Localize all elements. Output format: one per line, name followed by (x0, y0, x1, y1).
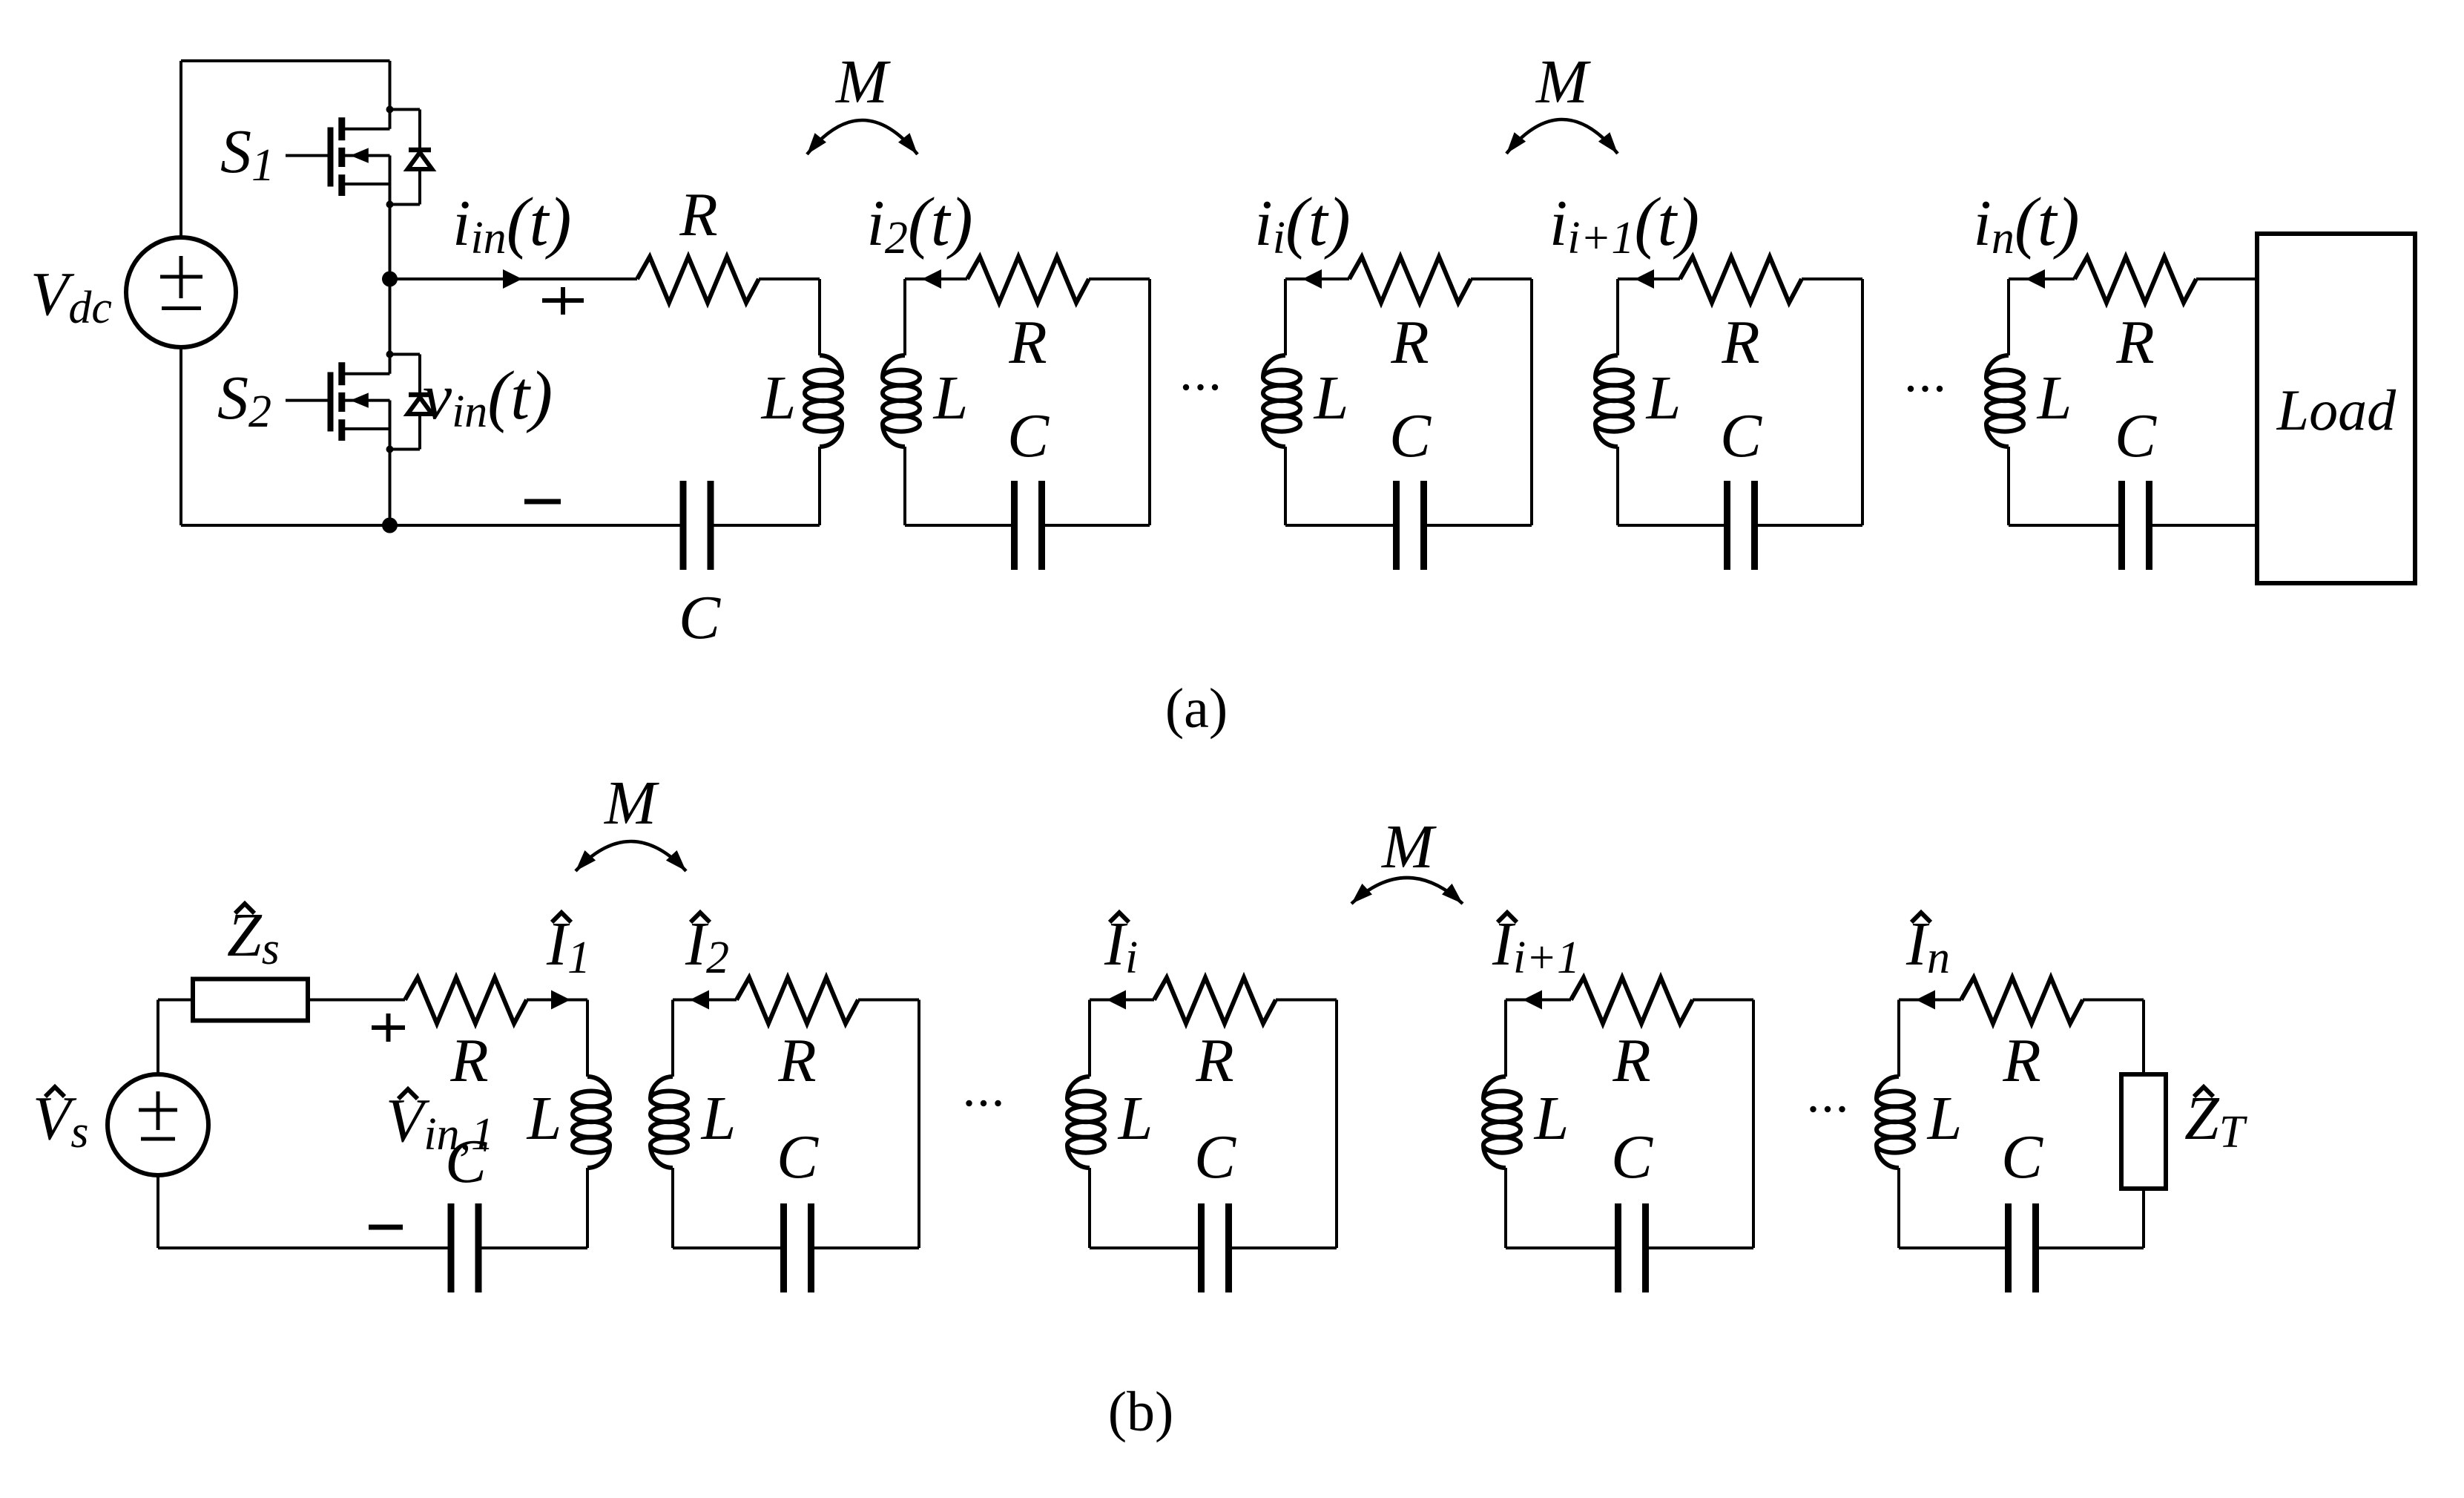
wire diode top branch S2 (390, 353, 421, 356)
wire b top left (158, 999, 193, 1002)
svg-text:M: M (604, 769, 659, 838)
svg-text:Load: Load (2276, 378, 2397, 442)
svg-text:L: L (1534, 1084, 1569, 1153)
label L loop1 (761, 364, 797, 433)
svg-text:L: L (1314, 364, 1349, 433)
caption (a) (1165, 677, 1228, 740)
svg-text:R: R (1008, 308, 1047, 377)
body diode of S1 (408, 110, 432, 205)
label Vdc (30, 260, 112, 333)
capacitor C loopi (1397, 481, 1424, 570)
label C loop2 (b) (777, 1123, 819, 1192)
transistor S2 gate bar (328, 372, 334, 432)
resistor R loopi+1 (1680, 257, 1802, 303)
label M coupling 2 (b) (1381, 812, 1437, 881)
resistor R loopi (1349, 257, 1471, 303)
resistor R loop2 (b) (737, 978, 858, 1024)
label in(t) (1973, 184, 2079, 263)
svg-text:L: L (761, 364, 797, 433)
label Vs with hat (33, 1084, 88, 1157)
wire b loopn top with arrow (1899, 991, 1961, 1010)
node S1 drain-diode junction (386, 106, 394, 114)
wire loopi top with current arrow (1285, 269, 1349, 289)
wire b loop1 bottom left (158, 1246, 451, 1249)
wire loop2 left lower (903, 447, 906, 525)
label R loopi (1390, 308, 1429, 377)
wire loop2 bottom left (905, 524, 1015, 527)
inductor L loop1 (b) (573, 1077, 610, 1168)
wire b loopi right vertical (1335, 1000, 1338, 1249)
resistor R loop1 (b) (405, 978, 527, 1024)
transistor S2 drain lead (342, 372, 390, 375)
inductor L loopi (b) (1067, 1077, 1104, 1168)
node bottom rail junction (382, 518, 398, 533)
transistor S2 gate lead (286, 399, 328, 402)
resistor R loop2 (967, 257, 1089, 303)
svg-text:C: C (1389, 401, 1432, 470)
capacitor C loopn (b) (2009, 1203, 2036, 1292)
wire b loopi left lower (1088, 1168, 1091, 1248)
label ii+1(t) (1549, 184, 1699, 263)
inductor L loopn (b) (1877, 1077, 1914, 1168)
mutual coupling arrow 1 (a) (807, 120, 918, 154)
wire loopi+1 top with current arrow (1618, 269, 1680, 289)
label C loop1 (b) (445, 1127, 487, 1196)
svg-text:L: L (1927, 1084, 1963, 1153)
wire loop2 right vertical (1148, 279, 1151, 525)
wire b loopi+1 bottom right (1646, 1246, 1754, 1249)
label R loopi+1 (b) (1612, 1026, 1650, 1095)
wire loop2 bottom right (1042, 524, 1150, 527)
wire loopi+1 bottom left (1618, 524, 1727, 527)
wire loopn left upper (2007, 279, 2010, 355)
capacitor C loop1 (b) (451, 1203, 478, 1292)
svg-text:L: L (701, 1084, 737, 1153)
wire b loopn left lower (1897, 1168, 1900, 1248)
label R loopi+1 (1721, 308, 1759, 377)
svg-text:(a): (a) (1165, 677, 1228, 740)
label Load (2276, 378, 2397, 442)
wire b loopi+1 top right (1693, 999, 1753, 1002)
transistor S1 gate lead (286, 154, 328, 157)
capacitor C loop2 (1015, 481, 1042, 570)
transistor S1 source lead (342, 183, 390, 185)
wire b loop1 right upper (586, 1000, 589, 1077)
wire loopi left lower (1284, 447, 1287, 525)
capacitor C loopi+1 (b) (1618, 1203, 1646, 1292)
label In with hat (1905, 910, 1950, 983)
wire loopi+1 right vertical (1861, 279, 1864, 525)
label R loopn (2115, 308, 2154, 377)
impedance ZT box (2121, 1074, 2166, 1189)
label vin(t) (423, 358, 553, 437)
wire b loop1 right lower (586, 1168, 589, 1248)
label minus Vin1 (369, 1225, 403, 1230)
ellipsis dots (b) 2 (1810, 1106, 1845, 1112)
svg-text:C: C (1611, 1123, 1653, 1192)
wire loop1 right lower (818, 447, 821, 525)
resistor R loop1 (637, 257, 759, 303)
wire loopi+1 top right (1802, 277, 1862, 280)
wire bridge vertical drain S1 (389, 61, 392, 129)
ellipsis dots (a) 1 (1183, 384, 1218, 390)
wire loopi+1 left upper (1616, 279, 1619, 355)
label Vin1 with hat (386, 1086, 494, 1160)
capacitor C loopi+1 (1727, 481, 1755, 570)
inductor L loopi (1263, 355, 1300, 447)
transistor S1 body lead with arrow (342, 148, 390, 162)
label L loop1 (b) (527, 1084, 562, 1153)
wire b loop2 left lower (671, 1168, 674, 1248)
wire b loop2 bottom right (811, 1246, 920, 1249)
label S1 (220, 117, 274, 191)
svg-text:C: C (1194, 1123, 1236, 1192)
body diode of S2 (408, 355, 432, 450)
label ZT with hat (2184, 1084, 2248, 1157)
label L loopn (2037, 364, 2072, 433)
wire b loopi+1 bottom left (1506, 1246, 1618, 1249)
svg-text:C: C (1720, 401, 1762, 470)
wire b loopi bottom left (1090, 1246, 1202, 1249)
wire loopi top right (1471, 277, 1532, 280)
resistor R loopi (b) (1154, 978, 1276, 1024)
wire b loopn right upper (2142, 1000, 2145, 1075)
wire loopi left upper (1284, 279, 1287, 355)
wire b loop2 top right (858, 999, 919, 1002)
wire loopi bottom left (1285, 524, 1397, 527)
wire b loopi top with arrow (1090, 991, 1154, 1010)
wire b loop2 top with arrow (673, 991, 737, 1010)
resistor R loopi+1 (b) (1571, 978, 1693, 1024)
wire loop1 bottom right (711, 524, 820, 527)
svg-text:i2(t): i2(t) (866, 184, 972, 263)
wire loop1 top right (759, 277, 820, 280)
label R loopn (b) (2002, 1026, 2040, 1095)
label L loop2 (933, 364, 969, 433)
label plus vin (542, 287, 584, 315)
label minus vin (524, 499, 561, 505)
wire b loop2 bottom left (673, 1246, 784, 1249)
wire loopi+1 left lower (1616, 447, 1619, 525)
label Zs with hat (227, 901, 280, 974)
svg-text:C: C (1007, 401, 1050, 470)
capacitor C loopn (2122, 481, 2150, 570)
wire loop2 top right (1089, 277, 1150, 280)
inductor L loopi+1 (b) (1483, 1077, 1521, 1168)
svg-text:L: L (933, 364, 969, 433)
wire diode bottom branch S2 (390, 448, 421, 451)
label plus Vin1 (372, 1014, 405, 1042)
svg-text:L: L (527, 1084, 562, 1153)
inductor L loop2 (883, 355, 920, 447)
label L loopi+1 (b) (1534, 1084, 1569, 1153)
label C loopi+1 (1720, 401, 1762, 470)
voltage source Vdc circle (126, 237, 236, 347)
wire dc left vertical lower (179, 346, 182, 525)
ellipsis dots (a) 2 (1908, 386, 1943, 392)
svg-text:R: R (1195, 1026, 1233, 1095)
label R loop1 (679, 180, 717, 249)
label L loopn (b) (1927, 1084, 1963, 1153)
label R loop1 (b) (449, 1026, 488, 1095)
svg-text:C: C (679, 583, 721, 652)
label Ii+1 with hat (1492, 910, 1580, 983)
label C loop2 (1007, 401, 1050, 470)
inductor L loop2 (b) (650, 1077, 688, 1168)
wire b loopn bottom left (1899, 1246, 2009, 1249)
wire loopn left lower (2007, 447, 2010, 525)
label M coupling 1 (a) (835, 47, 891, 116)
caption (b) (1108, 1381, 1174, 1443)
wire b loop1 top right with arrow (527, 991, 587, 1010)
label C loop1 (679, 583, 721, 652)
resistor R loopn (2075, 257, 2196, 303)
label M coupling 2 (a) (1535, 47, 1591, 116)
transistor S2 body lead with arrow (342, 392, 390, 407)
label I1 with hat (546, 910, 590, 983)
wire loopn bottom right (2150, 524, 2258, 527)
wire loop1 right upper (818, 279, 821, 355)
wire loop2 left upper (903, 279, 906, 355)
wire Vs bottom (157, 1174, 159, 1248)
svg-text:R: R (679, 180, 717, 249)
label C loopi (b) (1194, 1123, 1236, 1192)
wire loop1 top with current arrow (390, 269, 638, 289)
wire b loopn right lower (2142, 1189, 2145, 1248)
label Ii with hat (1104, 910, 1138, 983)
transistor S1 channel (338, 117, 345, 196)
wire bridge vertical source S2 (389, 401, 392, 525)
svg-text:ii(t): ii(t) (1254, 184, 1350, 263)
svg-text:R: R (2115, 308, 2154, 377)
wire loopn top with current arrow (2009, 269, 2075, 289)
wire bridge vertical middle (389, 156, 392, 374)
svg-text:R: R (1721, 308, 1759, 377)
svg-text:L: L (1646, 364, 1681, 433)
node S2 drain-diode junction (386, 351, 394, 358)
wire b loopi+1 right vertical (1752, 1000, 1755, 1249)
mutual coupling arrow 2 (a) (1506, 119, 1618, 154)
label C loopn (2115, 401, 2157, 470)
wire b loopn top right (2083, 999, 2144, 1002)
svg-text:M: M (1381, 812, 1437, 881)
svg-text:C: C (2001, 1123, 2043, 1192)
wire b loopi bottom right (1229, 1246, 1337, 1249)
wire b loop1 bottom right (478, 1246, 587, 1249)
node S2 source-diode junction (386, 446, 394, 453)
node S1 source-diode junction (386, 201, 394, 208)
wire b loop1 top (308, 999, 405, 1002)
resistor R loopn (b) (1961, 978, 2083, 1024)
wire dc top rail (181, 59, 390, 62)
wire loopi bottom right (1424, 524, 1532, 527)
svg-text:M: M (835, 47, 891, 116)
svg-text:L: L (1118, 1084, 1153, 1153)
mutual coupling arrow 2 (b) (1351, 878, 1463, 904)
svg-text:L: L (2037, 364, 2072, 433)
label S2 (217, 364, 271, 437)
inductor L loopn (1986, 355, 2023, 447)
wire diode bottom branch S1 (390, 203, 421, 206)
label C loopn (b) (2001, 1123, 2043, 1192)
label C loopi+1 (b) (1611, 1123, 1653, 1192)
wire b loopi left upper (1088, 1000, 1091, 1077)
wire diode top branch S1 (390, 108, 421, 111)
svg-text:C: C (2115, 401, 2157, 470)
label L loopi (1314, 364, 1349, 433)
label ii(t) (1254, 184, 1350, 263)
svg-text:R: R (2002, 1026, 2040, 1095)
label R loopi (b) (1195, 1026, 1233, 1095)
wire b loop2 right vertical (918, 1000, 920, 1249)
wire loop2 top with current arrow (905, 269, 967, 289)
wire b loopi+1 top with arrow (1506, 991, 1571, 1010)
wire loopi right vertical (1530, 279, 1533, 525)
wire loopi+1 bottom right (1755, 524, 1863, 527)
ellipsis dots (b) 1 (966, 1100, 1001, 1106)
wire dc left vertical upper (179, 61, 182, 239)
inductor L loopi+1 (1595, 355, 1633, 447)
wire S1 source vertical stub (389, 156, 392, 184)
label iin(t) (452, 184, 571, 263)
wire b loop2 left upper (671, 1000, 674, 1077)
svg-text:iin(t): iin(t) (452, 184, 571, 263)
wire b loopi+1 left upper (1504, 1000, 1507, 1077)
transistor S2 source lead (342, 427, 390, 430)
capacitor C loop2 (b) (784, 1203, 811, 1292)
wire S2 source vertical stub (389, 401, 392, 429)
wire loopn top right (2196, 277, 2257, 280)
wire b loopi+1 left lower (1504, 1168, 1507, 1248)
node vin output junction (382, 272, 398, 287)
label R loop2 (1008, 308, 1047, 377)
label L loopi (b) (1118, 1084, 1153, 1153)
transistor S1 drain lead (342, 128, 390, 131)
label i2(t) (866, 184, 972, 263)
wire b loopi top right (1276, 999, 1337, 1002)
svg-text:R: R (777, 1026, 816, 1095)
svg-text:(b): (b) (1108, 1381, 1174, 1443)
impedance Zs box (193, 979, 308, 1021)
svg-text:C: C (777, 1123, 819, 1192)
label L loop2 (b) (701, 1084, 737, 1153)
mutual coupling arrow 1 (b) (576, 841, 686, 871)
label C loopi (1389, 401, 1432, 470)
svg-text:R: R (1612, 1026, 1650, 1095)
label L loopi+1 (1646, 364, 1681, 433)
wire b loopn bottom right (2036, 1246, 2144, 1249)
capacitor C loopi (b) (1202, 1203, 1229, 1292)
wire dc bottom rail (181, 524, 683, 527)
voltage source Vs circle (108, 1074, 208, 1175)
label M coupling 1 (b) (604, 769, 659, 838)
svg-text:R: R (449, 1026, 488, 1095)
svg-text:R: R (1390, 308, 1429, 377)
transistor S1 gate bar (328, 128, 334, 187)
transistor S2 channel (338, 362, 345, 441)
inductor L loop1 (805, 355, 842, 447)
label R loop2 (b) (777, 1026, 816, 1095)
svg-text:vin(t): vin(t) (423, 358, 553, 437)
wire b loopn left upper (1897, 1000, 1900, 1077)
capacitor C loop1 (683, 481, 711, 570)
wire Vs top (157, 1000, 159, 1077)
load box (2257, 234, 2415, 583)
svg-text:in(t): in(t) (1973, 184, 2079, 263)
wire loopn bottom left (2009, 524, 2122, 527)
label I2 with hat (685, 910, 729, 983)
svg-text:M: M (1535, 47, 1591, 116)
